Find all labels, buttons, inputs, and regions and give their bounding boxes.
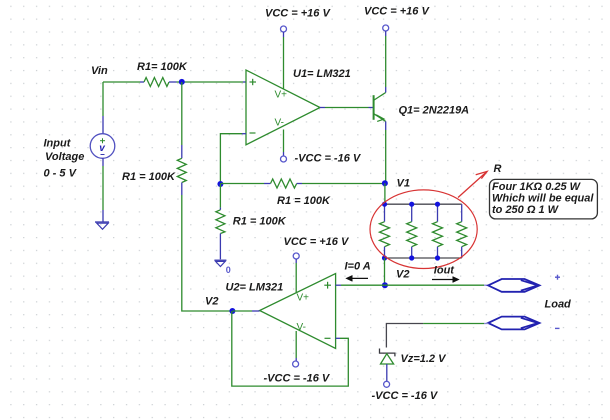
svg-text:U2= LM321: U2= LM321	[226, 282, 284, 294]
svg-text:Vz=1.2 V: Vz=1.2 V	[401, 353, 448, 365]
svg-text:Input: Input	[44, 138, 72, 150]
svg-text:V+: V+	[297, 293, 310, 304]
svg-text:U1= LM321: U1= LM321	[293, 68, 351, 80]
svg-text:V+: V+	[275, 90, 288, 101]
svg-text:R1 = 100K: R1 = 100K	[233, 216, 287, 228]
bank bottom rail	[385, 257, 462, 259]
arrow I=0 A (left)	[347, 276, 369, 282]
svg-text:I=0 A: I=0 A	[345, 261, 371, 273]
resistor R1 (vertical, +in to V2)	[177, 145, 186, 195]
svg-text:Iout: Iout	[434, 265, 455, 277]
svg-text:-VCC = -16 V: -VCC = -16 V	[264, 373, 331, 385]
wire V1 to bank top rail	[384, 183, 386, 204]
label Input Voltage 0 - 5 V	[44, 138, 85, 180]
wire Q1 emitter down to V1	[385, 121, 387, 183]
terminal -VCC U2	[293, 361, 299, 367]
wire VCC to U1 V+	[283, 32, 285, 89]
ground (input source)	[95, 222, 109, 229]
wire load - to zener branch	[386, 324, 488, 348]
svg-text:to 250 Ω 1 W: to 250 Ω 1 W	[492, 204, 560, 216]
wire bank bottom to V2 junction	[384, 258, 386, 285]
wire U2 -in feedback loop	[232, 311, 348, 386]
wire source to ground	[102, 166, 104, 210]
bank top rail	[385, 203, 462, 205]
connector (load -)	[488, 317, 539, 330]
node V1	[382, 180, 388, 186]
wire U1 -in to left	[220, 134, 246, 184]
node Vin junction	[179, 79, 185, 85]
svg-text:V-: V-	[297, 322, 306, 333]
voltage source V1 (input 0-5V)	[90, 134, 115, 159]
op-amp U2 LM321 (left pointing)	[260, 274, 336, 349]
red ellipse around bank	[370, 190, 477, 269]
terminal VCC U1	[281, 26, 287, 32]
resistor R1 (vertical to ground)	[216, 184, 225, 259]
svg-text:0 - 5 V: 0 - 5 V	[44, 168, 78, 180]
terminal -VCC U1	[281, 156, 287, 162]
node -in junction	[217, 181, 223, 187]
svg-text:Voltage: Voltage	[45, 151, 84, 163]
svg-text:Vin: Vin	[91, 65, 108, 77]
svg-text:V1: V1	[397, 178, 410, 190]
svg-text:R: R	[494, 163, 502, 175]
wire R1a output to junction and to U1 +in	[177, 81, 244, 83]
bank junction dots	[382, 202, 440, 261]
bank resistor 4	[457, 204, 467, 258]
svg-text:VCC = +16 V: VCC = +16 V	[284, 236, 350, 248]
wire U1 output to Q1 base	[320, 107, 373, 109]
wire V2 junction to load connector	[385, 284, 489, 286]
arrow Iout	[432, 277, 459, 283]
svg-text:Which will be equal: Which will be equal	[492, 193, 594, 205]
pin lead U1 +in	[243, 81, 246, 83]
resistor R1 (feedback to V1)	[220, 179, 385, 188]
annotation box	[490, 179, 598, 219]
svg-text:R1 = 100K: R1 = 100K	[277, 195, 331, 207]
wire junction down (R1b chain)	[181, 82, 183, 145]
wire U2 V- to -VCC	[295, 331, 297, 361]
svg-text:-VCC = -16 V: -VCC = -16 V	[372, 390, 439, 402]
op-amp U1 LM321	[246, 70, 320, 145]
connector (load +)	[488, 279, 539, 292]
svg-text:Four 1KΩ 0.25 W: Four 1KΩ 0.25 W	[492, 181, 582, 193]
wire V2 dot to U2 tip	[232, 310, 252, 312]
svg-text:V2: V2	[205, 296, 218, 308]
bank resistor 3	[433, 204, 443, 258]
svg-text:V2: V2	[396, 269, 409, 281]
bank resistor 1	[380, 204, 390, 258]
terminal VCC Q1	[383, 25, 389, 31]
wire Q1 collector to VCC	[385, 31, 387, 93]
svg-text:-VCC = -16 V: -VCC = -16 V	[295, 153, 362, 165]
wire U2 VCC to V+	[295, 259, 297, 293]
resistor R1 (Vin to +in)	[140, 78, 177, 87]
transistor Q1 2N2219A	[374, 93, 386, 122]
wire U2 +in to V2 junction	[336, 284, 385, 286]
source top pin	[102, 116, 104, 134]
ground 0 (at R1)	[214, 260, 230, 275]
source bottom pin	[102, 158, 104, 166]
wire Vin horizontal to R1a	[103, 81, 140, 83]
svg-text:R1= 100K: R1= 100K	[137, 61, 188, 73]
node V2 (output)	[382, 282, 388, 288]
terminal VCC U2	[293, 253, 299, 259]
svg-text:R1 = 100K: R1 = 100K	[122, 171, 176, 183]
red arrow to R	[458, 171, 487, 197]
terminal -VCC (zener)	[384, 381, 390, 387]
label - (load)	[555, 327, 560, 329]
label + (load)	[555, 275, 560, 280]
bank resistor 2	[407, 204, 417, 258]
svg-text:VCC = +16 V: VCC = +16 V	[265, 8, 331, 20]
wire R1b bottom down to V2 node	[182, 195, 233, 311]
zener diode Vz	[380, 349, 395, 382]
wire U1 V- to -VCC	[283, 130, 285, 157]
node V2 (U2 input junction)	[229, 308, 235, 314]
svg-text:Q1= 2N2219A: Q1= 2N2219A	[399, 105, 470, 117]
svg-text:Load: Load	[545, 299, 572, 311]
pin lead U2 output	[252, 310, 260, 312]
wire Vin down to source	[102, 82, 104, 116]
svg-text:VCC = +16 V: VCC = +16 V	[364, 6, 430, 18]
svg-text:V-: V-	[275, 118, 284, 129]
svg-text:0: 0	[226, 265, 231, 275]
